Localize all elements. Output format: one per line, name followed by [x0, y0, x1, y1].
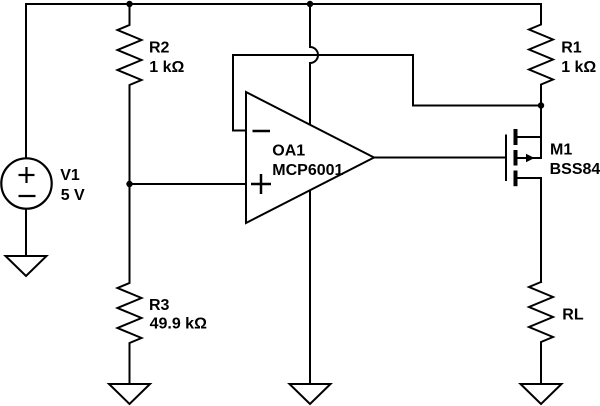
svg-text:R3: R3: [149, 297, 170, 314]
svg-text:1 kΩ: 1 kΩ: [561, 59, 596, 76]
svg-text:49.9 kΩ: 49.9 kΩ: [150, 316, 207, 333]
svg-text:R2: R2: [149, 39, 170, 56]
svg-text:BSS84: BSS84: [550, 161, 600, 178]
svg-text:OA1: OA1: [272, 143, 305, 160]
svg-text:5 V: 5 V: [61, 187, 85, 204]
svg-text:R1: R1: [561, 40, 582, 57]
svg-text:RL: RL: [562, 307, 584, 324]
svg-text:1 kΩ: 1 kΩ: [149, 59, 184, 76]
svg-text:MCP6001: MCP6001: [272, 162, 343, 179]
svg-text:V1: V1: [60, 167, 80, 184]
svg-text:M1: M1: [550, 141, 572, 158]
